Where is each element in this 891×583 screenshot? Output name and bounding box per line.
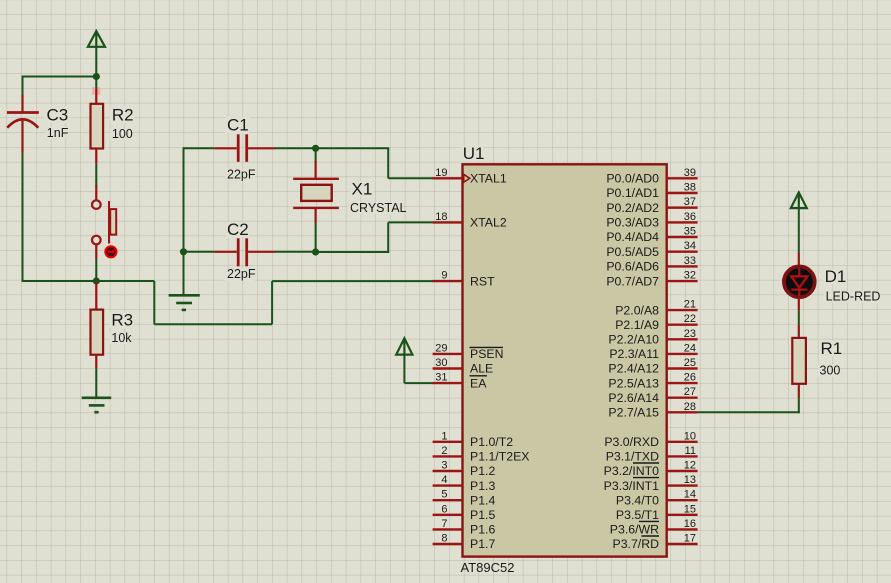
- wire: [316, 251, 390, 253]
- svg-text:P1.2: P1.2: [470, 464, 495, 478]
- svg-text:6: 6: [441, 503, 447, 515]
- svg-text:P2.1/A9: P2.1/A9: [615, 318, 659, 332]
- svg-text:P0.3/AD3: P0.3/AD3: [606, 216, 659, 230]
- svg-text:3: 3: [441, 460, 447, 472]
- left pin stubs: [433, 178, 463, 544]
- pin 30 stub: [433, 367, 463, 369]
- label R1: [819, 341, 843, 357]
- capacitor C3: [7, 95, 39, 153]
- svg-text:P3.4/T0: P3.4/T0: [616, 493, 659, 507]
- label C2: [225, 222, 250, 238]
- wire: [154, 323, 272, 325]
- svg-text:C2: C2: [227, 220, 249, 239]
- svg-text:P1.6: P1.6: [470, 523, 495, 537]
- svg-text:300: 300: [820, 364, 841, 378]
- wire to XTAL2: [388, 221, 433, 223]
- power symbol (LED arrow): [791, 192, 807, 208]
- svg-text:25: 25: [684, 357, 696, 369]
- svg-text:P3.2/INT0: P3.2/INT0: [604, 464, 660, 478]
- svg-text:LED-RED: LED-RED: [826, 290, 881, 304]
- pin 34 stub: [667, 250, 698, 252]
- pin 23 stub: [667, 338, 698, 340]
- label C1: [225, 117, 250, 133]
- svg-text:12: 12: [684, 460, 696, 472]
- pin 29 stub: [433, 353, 463, 355]
- svg-text:P1.0/T2: P1.0/T2: [470, 435, 513, 449]
- overline WR: [639, 520, 659, 522]
- wire: [275, 147, 316, 149]
- wire: [95, 47, 97, 77]
- svg-text:P0.0/AD0: P0.0/AD0: [606, 172, 659, 186]
- right pin stubs: [667, 178, 698, 544]
- svg-text:32: 32: [684, 270, 696, 282]
- capacitor C2: [214, 238, 274, 266]
- svg-text:EA: EA: [470, 376, 487, 390]
- svg-text:P1.7: P1.7: [470, 537, 495, 551]
- svg-text:P3.6/WR: P3.6/WR: [610, 523, 659, 537]
- pin 14 stub: [667, 499, 698, 501]
- svg-text:29: 29: [435, 342, 447, 354]
- pin 32 stub: [667, 280, 698, 282]
- svg-text:4: 4: [441, 474, 447, 486]
- label U1: [461, 146, 484, 162]
- svg-text:P0.1/AD1: P0.1/AD1: [606, 186, 659, 200]
- wire (RST detour down): [153, 281, 155, 324]
- wire: [275, 251, 316, 253]
- svg-text:CRYSTAL: CRYSTAL: [350, 201, 407, 215]
- svg-text:19: 19: [435, 167, 447, 179]
- svg-text:38: 38: [684, 182, 696, 194]
- svg-text:R2: R2: [112, 105, 134, 124]
- capacitor C1: [214, 134, 274, 162]
- pin 5 stub: [433, 499, 463, 501]
- LED D1: [784, 252, 815, 311]
- svg-text:5: 5: [441, 489, 447, 501]
- svg-text:24: 24: [684, 342, 696, 354]
- value LED-RED: [824, 291, 878, 303]
- node junction C2/ground rail: [180, 248, 187, 255]
- wire: [95, 369, 97, 398]
- wire (left rail): [183, 147, 185, 253]
- svg-text:P1.5: P1.5: [470, 508, 495, 522]
- svg-text:ALE: ALE: [470, 362, 493, 376]
- wire: [22, 153, 24, 282]
- wire: [22, 76, 24, 96]
- svg-text:36: 36: [684, 211, 696, 223]
- label R2: [110, 107, 134, 123]
- svg-text:100: 100: [112, 127, 133, 141]
- pin 3 stub: [433, 470, 463, 472]
- ground near C2: [169, 295, 200, 310]
- svg-text:21: 21: [684, 299, 696, 311]
- svg-text:16: 16: [684, 518, 696, 530]
- svg-text:9: 9: [441, 270, 447, 282]
- wire: [403, 355, 405, 384]
- svg-text:D1: D1: [825, 267, 847, 286]
- power symbol (top-left VCC arrow): [88, 31, 105, 47]
- svg-text:X1: X1: [352, 180, 373, 199]
- svg-text:14: 14: [684, 489, 696, 501]
- wire to pin 28: [698, 411, 800, 413]
- svg-text:P2.6/A14: P2.6/A14: [608, 391, 659, 405]
- pin 4 stub: [433, 484, 463, 486]
- svg-text:11: 11: [685, 445, 696, 457]
- pink selection highlight above R2: [92, 87, 100, 95]
- overline INT1: [633, 477, 659, 479]
- svg-text:P1.4: P1.4: [470, 493, 495, 507]
- wire: [798, 398, 800, 413]
- wire: [184, 147, 215, 149]
- pin 21 stub: [667, 309, 698, 311]
- pin 2 stub: [433, 455, 463, 457]
- value 22pF: [225, 269, 255, 281]
- svg-text:22: 22: [684, 313, 696, 325]
- svg-text:28: 28: [684, 401, 696, 413]
- label D1: [823, 269, 847, 285]
- resistor R2: [91, 77, 104, 164]
- svg-text:26: 26: [684, 372, 696, 384]
- overline EA: [470, 375, 488, 377]
- value 300: [818, 365, 840, 377]
- wire to XTAL1: [388, 177, 433, 179]
- pin 7 stub: [433, 528, 463, 530]
- pin 37 stub: [667, 206, 698, 208]
- svg-text:P3.3/INT1: P3.3/INT1: [604, 479, 660, 493]
- value 10k: [110, 333, 131, 345]
- wire: [387, 222, 389, 252]
- svg-text:10k: 10k: [111, 331, 132, 345]
- wire to EA: [404, 382, 433, 384]
- pin 13 stub: [667, 484, 698, 486]
- svg-text:8: 8: [441, 533, 447, 545]
- pin 38 stub: [667, 192, 698, 194]
- pin 26 stub: [667, 382, 698, 384]
- power symbol (EA arrow): [396, 338, 412, 354]
- node junction at R2 top: [93, 73, 100, 80]
- svg-text:U1: U1: [463, 144, 485, 163]
- wire: [798, 208, 800, 252]
- wire: [23, 280, 155, 282]
- svg-text:39: 39: [684, 167, 696, 179]
- pin 8 stub: [433, 543, 463, 545]
- right pin numbers: [684, 167, 696, 545]
- svg-text:XTAL2: XTAL2: [470, 216, 507, 230]
- wire: [95, 259, 97, 282]
- svg-text:RST: RST: [470, 274, 495, 288]
- svg-text:17: 17: [684, 533, 696, 545]
- svg-text:7: 7: [441, 518, 447, 530]
- svg-text:10: 10: [684, 430, 696, 442]
- svg-text:P0.2/AD2: P0.2/AD2: [606, 201, 659, 215]
- pin 19 stub: [433, 177, 463, 179]
- red state marker dot: [104, 245, 117, 258]
- svg-text:P2.0/A8: P2.0/A8: [615, 303, 659, 317]
- svg-text:R1: R1: [821, 339, 843, 358]
- svg-text:P0.6/AD6: P0.6/AD6: [606, 260, 659, 274]
- resistor R3: [91, 281, 104, 369]
- svg-text:P0.7/AD7: P0.7/AD7: [606, 274, 659, 288]
- IC U1 AT89C52 body: [463, 164, 667, 556]
- pin 16 stub: [667, 528, 698, 530]
- right pin names: [604, 172, 660, 552]
- svg-text:31: 31: [435, 372, 447, 384]
- svg-text:18: 18: [435, 211, 447, 223]
- svg-text:PSEN: PSEN: [470, 347, 504, 361]
- svg-text:33: 33: [684, 255, 696, 267]
- pin 9 stub: [433, 280, 463, 282]
- pin 33 stub: [667, 265, 698, 267]
- pin 10 stub: [667, 441, 698, 443]
- wire to RST: [272, 280, 433, 282]
- svg-text:P2.7/A15: P2.7/A15: [608, 406, 659, 420]
- wire: [183, 252, 185, 295]
- label C3: [45, 107, 70, 123]
- overline PSEN: [470, 346, 504, 348]
- pin 11 stub: [667, 455, 698, 457]
- wire: [184, 251, 215, 253]
- svg-text:P2.2/A10: P2.2/A10: [608, 333, 659, 347]
- pin 6 stub: [433, 514, 463, 516]
- svg-text:34: 34: [684, 240, 696, 252]
- value 1nF: [45, 127, 66, 139]
- svg-text:2: 2: [441, 445, 447, 457]
- pin 36 stub: [667, 221, 698, 223]
- pin 28 stub: [667, 411, 698, 413]
- svg-text:P2.5/A13: P2.5/A13: [608, 376, 659, 390]
- clock triangle on XTAL1: [464, 174, 470, 182]
- svg-text:C1: C1: [227, 116, 249, 135]
- svg-text:P2.3/A11: P2.3/A11: [609, 347, 659, 361]
- svg-text:23: 23: [684, 328, 696, 340]
- node junction C2/XTAL2: [312, 248, 319, 255]
- svg-text:R3: R3: [111, 311, 133, 330]
- pin 35 stub: [667, 236, 698, 238]
- wire: [95, 164, 97, 186]
- pin 18 stub: [433, 221, 463, 223]
- node junction at R3 top: [93, 277, 100, 284]
- pin 39 stub: [667, 177, 698, 179]
- svg-text:P2.4/A12: P2.4/A12: [608, 362, 659, 376]
- svg-text:1: 1: [441, 430, 447, 442]
- crystal X1: [293, 148, 339, 252]
- left pin names: [470, 172, 529, 552]
- svg-text:22pF: 22pF: [227, 267, 256, 281]
- pin 25 stub: [667, 367, 698, 369]
- wire: [271, 281, 273, 324]
- svg-text:37: 37: [684, 196, 696, 208]
- wire: [22, 76, 97, 78]
- pin 1 stub: [433, 441, 463, 443]
- svg-text:P1.3: P1.3: [470, 479, 495, 493]
- pin 24 stub: [667, 353, 698, 355]
- pin 17 stub: [667, 543, 698, 545]
- label R3: [110, 312, 134, 328]
- svg-text:P1.1/T2EX: P1.1/T2EX: [470, 450, 529, 464]
- svg-text:30: 30: [435, 357, 447, 369]
- pin 27 stub: [667, 397, 698, 399]
- pin 22 stub: [667, 324, 698, 326]
- svg-text:P3.1/TXD: P3.1/TXD: [606, 450, 659, 464]
- svg-text:1nF: 1nF: [47, 126, 69, 140]
- svg-text:XTAL1: XTAL1: [470, 172, 507, 186]
- pin 15 stub: [667, 514, 698, 516]
- value 100: [110, 129, 132, 141]
- svg-text:13: 13: [684, 474, 696, 486]
- pin 12 stub: [667, 470, 698, 472]
- svg-text:P3.7/RD: P3.7/RD: [613, 537, 660, 551]
- value CRYSTAL: [349, 202, 401, 214]
- overline INT0: [633, 462, 659, 464]
- svg-text:AT89C52: AT89C52: [461, 560, 515, 575]
- overline RD: [642, 535, 660, 537]
- value 22pF: [225, 169, 255, 181]
- svg-text:22pF: 22pF: [227, 167, 256, 181]
- svg-text:P0.4/AD4: P0.4/AD4: [606, 230, 659, 244]
- svg-text:27: 27: [684, 386, 696, 398]
- wire: [316, 147, 390, 149]
- wire: [387, 148, 389, 178]
- wire: [798, 311, 800, 325]
- push button: [92, 185, 116, 259]
- svg-text:P0.5/AD5: P0.5/AD5: [606, 245, 659, 259]
- svg-text:C3: C3: [47, 105, 69, 124]
- label X1: [350, 181, 374, 197]
- resistor R1: [792, 324, 806, 398]
- ground below R3: [82, 398, 112, 412]
- node junction C1/XTAL1: [312, 145, 319, 152]
- svg-text:P3.5/T1: P3.5/T1: [616, 508, 659, 522]
- pin 31 stub: [433, 382, 463, 384]
- svg-text:35: 35: [684, 226, 696, 238]
- svg-text:15: 15: [684, 503, 696, 515]
- left pin numbers: [435, 167, 447, 545]
- svg-text:P3.0/RXD: P3.0/RXD: [604, 435, 659, 449]
